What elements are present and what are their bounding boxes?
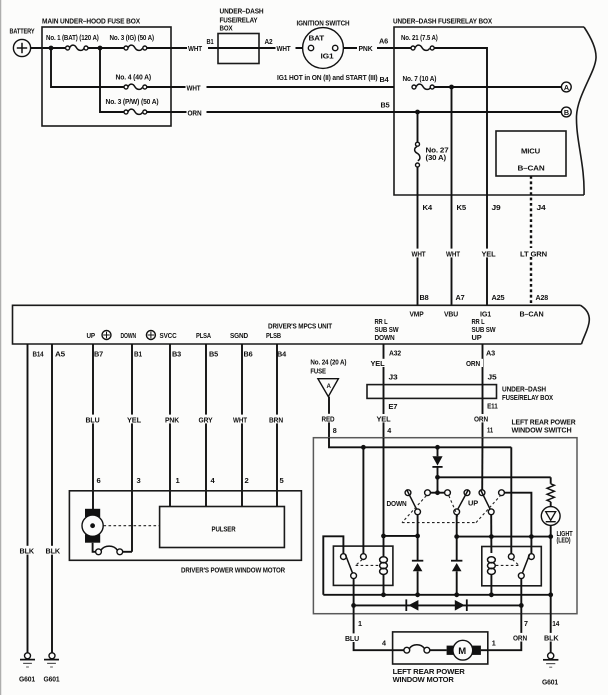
wire fuse7 to connector A — [434, 86, 561, 88]
connector A (circled) — [561, 82, 571, 92]
scan left edge line — [0, 0, 2, 695]
node: junction light bus / LED drop — [548, 534, 553, 539]
svg-text:A25: A25 — [492, 293, 505, 302]
node: junction YEL / coil K1 top — [381, 534, 386, 539]
motor M2 (left rear window motor) — [447, 640, 488, 660]
svg-text:1: 1 — [358, 619, 362, 628]
svg-text:BAT: BAT — [309, 34, 325, 43]
wire BLK A5 to ground G601 — [51, 344, 53, 653]
wire BLU pin1 to motor — [354, 614, 393, 651]
diode D3 (up) — [451, 561, 462, 595]
svg-text:3: 3 — [137, 476, 141, 485]
svg-text:4: 4 — [387, 426, 391, 435]
svg-text:No. 21 (7.5 A): No. 21 (7.5 A) — [401, 33, 438, 42]
wire row1 to small under-dash box, WHT label — [147, 47, 218, 49]
wire BLK drop pin 14 — [550, 537, 552, 614]
motor M1 (driver's window motor armature) — [82, 509, 103, 543]
under-dash fuse/relay box (top small) — [218, 7, 264, 64]
switch S2 UP contacts — [445, 490, 479, 515]
node: junction bus / coil K1 — [381, 592, 386, 597]
wire YEL A32 to switch pin4 — [383, 344, 385, 438]
svg-text:DRIVER'S MPCS UNIT: DRIVER'S MPCS UNIT — [268, 322, 333, 331]
node: junction p2 / light bus — [454, 534, 459, 539]
svg-text:WHT: WHT — [412, 250, 426, 259]
fuse No.4 (40 A) — [116, 73, 152, 90]
fuse No.24 (20 A) triangle — [310, 358, 347, 397]
svg-text:B4: B4 — [277, 350, 286, 359]
svg-text:G601: G601 — [44, 675, 61, 684]
svg-text:YEL: YEL — [482, 250, 496, 259]
wire relay K1 pivot to pin 1 — [353, 579, 355, 614]
svg-text:B14: B14 — [33, 350, 44, 359]
svg-text:No. 1 (BAT) (120 A): No. 1 (BAT) (120 A) — [46, 33, 99, 42]
svg-text:WHT: WHT — [233, 416, 247, 425]
svg-text:E11: E11 — [487, 402, 498, 411]
svg-text:WHT: WHT — [188, 44, 202, 53]
svg-text:6: 6 — [97, 476, 101, 485]
node: junction No.27 drop — [415, 110, 420, 115]
node: junction bus / BLK drop — [548, 592, 553, 597]
under-dash fuse/relay box (large, torn right edge) — [393, 17, 596, 196]
svg-text:YEL: YEL — [127, 416, 141, 425]
svg-text:PNK: PNK — [165, 416, 180, 425]
pin UP with circle-plus — [87, 331, 112, 341]
arrow line between pivots — [354, 599, 522, 611]
svg-text:B5: B5 — [209, 350, 218, 359]
svg-text:4: 4 — [211, 476, 216, 485]
svg-text:MAIN UNDER–HOOD FUSE BOX: MAIN UNDER–HOOD FUSE BOX — [42, 17, 140, 26]
svg-text:UP: UP — [472, 333, 482, 342]
node: junction light bus / coil K2 — [489, 534, 494, 539]
node: junction light bus / c6 drop — [529, 534, 534, 539]
node: junction RED bus / diode D1 — [435, 445, 440, 450]
relay K1 (down relay) — [333, 546, 393, 585]
wire YEL pin4 link to p1 — [384, 535, 418, 537]
wire connector to pin3 wire — [123, 551, 132, 553]
wire relay K1 NC hook to bottom bus — [323, 536, 343, 595]
svg-text:A7: A7 — [456, 293, 465, 302]
node: junction RED bus / relay K1 contact drop — [361, 445, 366, 450]
svg-text:WINDOW SWITCH: WINDOW SWITCH — [512, 425, 572, 434]
wire c6 to relay K2 contact drop — [504, 493, 531, 554]
relay K1 coil — [380, 536, 388, 595]
wire BLK B14 to ground G601 — [27, 344, 29, 653]
wire row3 inside big box to connector B — [394, 111, 561, 113]
svg-text:UNDER–DASH FUSE/RELAY BOX: UNDER–DASH FUSE/RELAY BOX — [393, 17, 492, 26]
svg-text:PNK: PNK — [359, 44, 374, 53]
svg-text:G601: G601 — [19, 675, 36, 684]
svg-text:B5: B5 — [381, 101, 390, 110]
svg-text:WINDOW MOTOR: WINDOW MOTOR — [393, 675, 455, 684]
svg-text:A: A — [327, 383, 332, 390]
svg-text:K5: K5 — [457, 203, 467, 212]
wire relay K2 pivot to pin 7 — [520, 579, 522, 614]
svg-text:7: 7 — [524, 619, 528, 628]
svg-text:1: 1 — [492, 639, 496, 648]
svg-text:(LED): (LED) — [557, 535, 572, 544]
pin DOWN with circle-plus — [121, 331, 156, 341]
MICU box with B-CAN — [496, 131, 566, 176]
svg-text:PLSB: PLSB — [266, 331, 281, 340]
pin RR L SUB SW DOWN — [375, 317, 399, 342]
svg-text:PLSA: PLSA — [196, 331, 211, 340]
svg-text:UNDER–DASH: UNDER–DASH — [220, 7, 264, 16]
driver's MPCS unit band (torn right edge) — [13, 305, 590, 344]
ground G601 (right) — [542, 653, 559, 687]
svg-text:B–CAN: B–CAN — [520, 310, 544, 319]
svg-text:BATTERY: BATTERY — [10, 27, 35, 36]
svg-text:DOWN: DOWN — [375, 333, 395, 342]
svg-text:IG1 HOT in ON (II) and START (: IG1 HOT in ON (II) and START (III) — [277, 73, 378, 82]
connector B (circled) — [561, 107, 571, 117]
ignition switch — [297, 19, 350, 69]
svg-text:J5: J5 — [488, 373, 497, 382]
wire WHT K4 to B8 — [417, 195, 419, 305]
wire WHT row2: No.4 fuse to B4 — [147, 86, 394, 88]
node: junction No.3(P/W) branch — [98, 46, 103, 51]
relay K2 (up relay) — [482, 547, 542, 586]
bottom bus wire (ground side) — [323, 594, 550, 596]
svg-text:BLU: BLU — [345, 634, 360, 643]
wire PNK B3 to pulser pin1 — [169, 344, 171, 507]
svg-text:GRY: GRY — [199, 416, 213, 425]
svg-text:(30 A): (30 A) — [426, 153, 447, 162]
svg-text:B8: B8 — [420, 293, 429, 302]
svg-text:B1: B1 — [207, 37, 214, 46]
svg-text:B3: B3 — [172, 350, 181, 359]
resistor R1 — [547, 477, 554, 506]
wire BLK pin14 to ground — [550, 614, 552, 653]
svg-text:ORN: ORN — [466, 359, 480, 368]
wire RED bus inside switch box — [329, 438, 511, 448]
svg-text:FUSE/RELAY BOX: FUSE/RELAY BOX — [502, 393, 553, 402]
svg-text:LT GRN: LT GRN — [520, 250, 547, 259]
dashed mechanical link motor to pulser — [104, 525, 160, 527]
diode D2 (up) — [412, 561, 423, 595]
node: junction bus / coil K2 — [489, 592, 494, 597]
battery — [10, 27, 35, 57]
svg-text:11: 11 — [487, 425, 493, 434]
node: junction bus / diode D3 — [454, 592, 459, 597]
svg-text:A: A — [564, 83, 569, 92]
pin RR L SUB SW UP — [472, 317, 496, 342]
svg-text:B1: B1 — [134, 350, 142, 359]
node: junction bus / diode D2 — [415, 592, 420, 597]
wire YEL J9 to A25 — [486, 195, 488, 305]
wire battery to main fuse box row1 — [31, 47, 66, 49]
left rear power window motor box — [393, 632, 488, 684]
svg-text:BOX: BOX — [220, 24, 233, 33]
wire motor bottom to connector — [93, 543, 96, 552]
wire LT GRN J4 to A28 (dashed B-CAN line) — [530, 176, 532, 305]
wire branch battery junction to fuse No.4 — [51, 48, 124, 87]
wire p3 to coil K2 — [490, 515, 492, 553]
wire BRN B4 to pulser pin5 — [276, 344, 278, 507]
wire ORN pin11 to contact c5 — [481, 438, 483, 490]
wire BLU B7 to motor pin6 — [92, 344, 94, 510]
left rear power window switch box — [313, 418, 577, 614]
svg-text:YEL: YEL — [371, 359, 385, 368]
svg-text:ORN: ORN — [188, 108, 202, 117]
svg-text:A6: A6 — [379, 37, 388, 46]
wire YEL pin4 inside switch box — [383, 438, 385, 536]
svg-text:ORN: ORN — [474, 414, 488, 423]
node: junction pin7 / arrow line — [519, 603, 524, 608]
wire ignition to big box, PNK label — [343, 47, 394, 49]
svg-text:WHT: WHT — [277, 44, 291, 53]
svg-text:VBU: VBU — [444, 310, 458, 319]
svg-text:UP: UP — [468, 499, 478, 508]
svg-text:WHT: WHT — [187, 83, 201, 92]
svg-text:B6: B6 — [244, 350, 253, 359]
svg-text:PULSER: PULSER — [212, 525, 237, 534]
wire ORN A3 to switch pin11 — [482, 344, 484, 438]
wire small box to ignition switch, WHT label — [259, 47, 302, 49]
svg-text:No. 24 (20 A): No. 24 (20 A) — [310, 358, 347, 367]
svg-text:A3: A3 — [486, 349, 495, 358]
node: junction pin1 / arrow line — [351, 603, 356, 608]
wire fuse1 to fuse3IG — [88, 47, 124, 49]
wire p2 to diode D3 — [456, 515, 458, 561]
svg-text:B: B — [564, 108, 569, 117]
fuse No.3 (IG) (50 A) — [110, 33, 155, 50]
svg-text:VMP: VMP — [410, 310, 424, 319]
svg-text:IGNITION SWITCH: IGNITION SWITCH — [297, 19, 350, 28]
switch S1 DOWN contacts — [387, 489, 431, 514]
svg-text:8: 8 — [333, 426, 337, 435]
wire YEL B1 to motor pin3 — [131, 344, 133, 552]
svg-text:B4: B4 — [380, 75, 389, 84]
diode D1 (down) — [432, 447, 442, 492]
LED light (LIGHT (LED)) — [541, 507, 573, 545]
svg-text:UP: UP — [87, 331, 96, 340]
svg-text:5: 5 — [280, 476, 285, 485]
svg-text:A28: A28 — [536, 293, 549, 302]
svg-text:DOWN: DOWN — [121, 331, 137, 340]
svg-text:FUSE: FUSE — [310, 366, 326, 375]
svg-text:G601: G601 — [542, 678, 559, 687]
wire p1 to diode D2 — [417, 515, 419, 561]
node: junction K5 drop — [449, 85, 454, 90]
pulser unit — [160, 507, 285, 548]
relay K2 coil — [488, 557, 496, 595]
under-dash fuse/relay box (pass-through) — [367, 384, 553, 402]
motor M2 connector — [393, 645, 447, 653]
fuse No.1 (BAT) (120 A) — [46, 33, 99, 50]
svg-text:A5: A5 — [55, 350, 65, 359]
light bus wire — [457, 536, 551, 538]
main under-hood fuse box — [42, 17, 171, 127]
wire WHT K5 to A7 — [451, 195, 453, 305]
fuse No.27 (30 A) vertical — [415, 112, 449, 195]
svg-text:RED: RED — [322, 415, 336, 424]
svg-text:14: 14 — [552, 619, 559, 628]
switch S3 contacts (light feed) — [479, 490, 504, 515]
svg-text:No. 3 (IG) (50 A): No. 3 (IG) (50 A) — [110, 33, 155, 42]
svg-text:J9: J9 — [492, 203, 501, 212]
svg-text:2: 2 — [245, 476, 249, 485]
svg-text:No. 4 (40 A): No. 4 (40 A) — [116, 73, 152, 82]
svg-text:B–CAN: B–CAN — [518, 164, 545, 173]
ground G601 (left 1) — [19, 653, 36, 684]
wire GRY B5 to pulser pin4 — [205, 344, 207, 507]
fuse No.21 (7.5 A) — [394, 33, 438, 50]
svg-text:B7: B7 — [94, 350, 103, 359]
driver's power window motor box — [69, 491, 301, 575]
svg-text:MICU: MICU — [521, 147, 541, 156]
svg-text:BLK: BLK — [20, 547, 35, 556]
wire fuse21 to J9 drop — [434, 48, 487, 195]
node: junction YEL link / p1 — [415, 534, 420, 539]
svg-text:BLU: BLU — [86, 416, 101, 425]
svg-text:J4: J4 — [537, 203, 546, 212]
svg-text:DOWN: DOWN — [387, 499, 407, 508]
connector (motor lead) — [96, 546, 123, 555]
dashed mechanical linkage of switch knob — [402, 496, 500, 523]
wire relay K1 contact drop — [362, 447, 364, 553]
wire WHT B6 to pulser pin2 — [241, 344, 243, 507]
svg-text:UNDER–DASH: UNDER–DASH — [502, 384, 546, 393]
svg-text:No. 7 (10 A): No. 7 (10 A) — [403, 74, 437, 83]
svg-text:WHT: WHT — [446, 250, 460, 259]
svg-text:BLK: BLK — [46, 547, 61, 556]
svg-text:No. 3 (P/W) (50 A): No. 3 (P/W) (50 A) — [106, 97, 160, 106]
wire branch to fuse No.3(P/W) — [100, 48, 124, 112]
node: junction diode D1 / resistor feed — [435, 475, 440, 480]
wire K5 vertical inside box — [451, 87, 453, 195]
wire c2-c3 with junction — [430, 492, 444, 494]
svg-text:1: 1 — [176, 476, 181, 485]
fuse No.7 (10 A) — [403, 74, 437, 89]
wire RED bus drop to relay K2 contact — [510, 447, 512, 553]
svg-text:E7: E7 — [388, 402, 397, 411]
wire RED fuse24 to switch pin8 — [328, 397, 330, 438]
svg-text:BLK: BLK — [544, 634, 559, 643]
wire ORN row3: No.3(P/W) fuse to B5 — [147, 111, 394, 113]
svg-text:SVCC: SVCC — [160, 331, 177, 340]
wire to resistor R1 — [438, 476, 551, 478]
fuse No.3 (P/W) (50 A) — [106, 97, 160, 114]
node: junction battery/No.4 branch — [49, 46, 54, 51]
svg-text:YEL: YEL — [377, 414, 391, 423]
svg-text:IG1: IG1 — [321, 52, 334, 61]
svg-text:SGND: SGND — [230, 331, 248, 340]
wire ORN pin7 to motor — [488, 614, 522, 651]
svg-text:BRN: BRN — [269, 416, 283, 425]
ground G601 (left 2) — [44, 653, 61, 684]
svg-text:J3: J3 — [389, 373, 398, 382]
svg-text:A32: A32 — [389, 349, 401, 358]
svg-text:K4: K4 — [423, 203, 433, 212]
svg-text:DRIVER'S POWER WINDOW MOTOR: DRIVER'S POWER WINDOW MOTOR — [181, 566, 286, 575]
svg-text:ORN: ORN — [513, 634, 527, 643]
svg-text:4: 4 — [382, 639, 386, 648]
svg-text:M: M — [458, 646, 466, 657]
svg-text:A2: A2 — [265, 37, 273, 46]
